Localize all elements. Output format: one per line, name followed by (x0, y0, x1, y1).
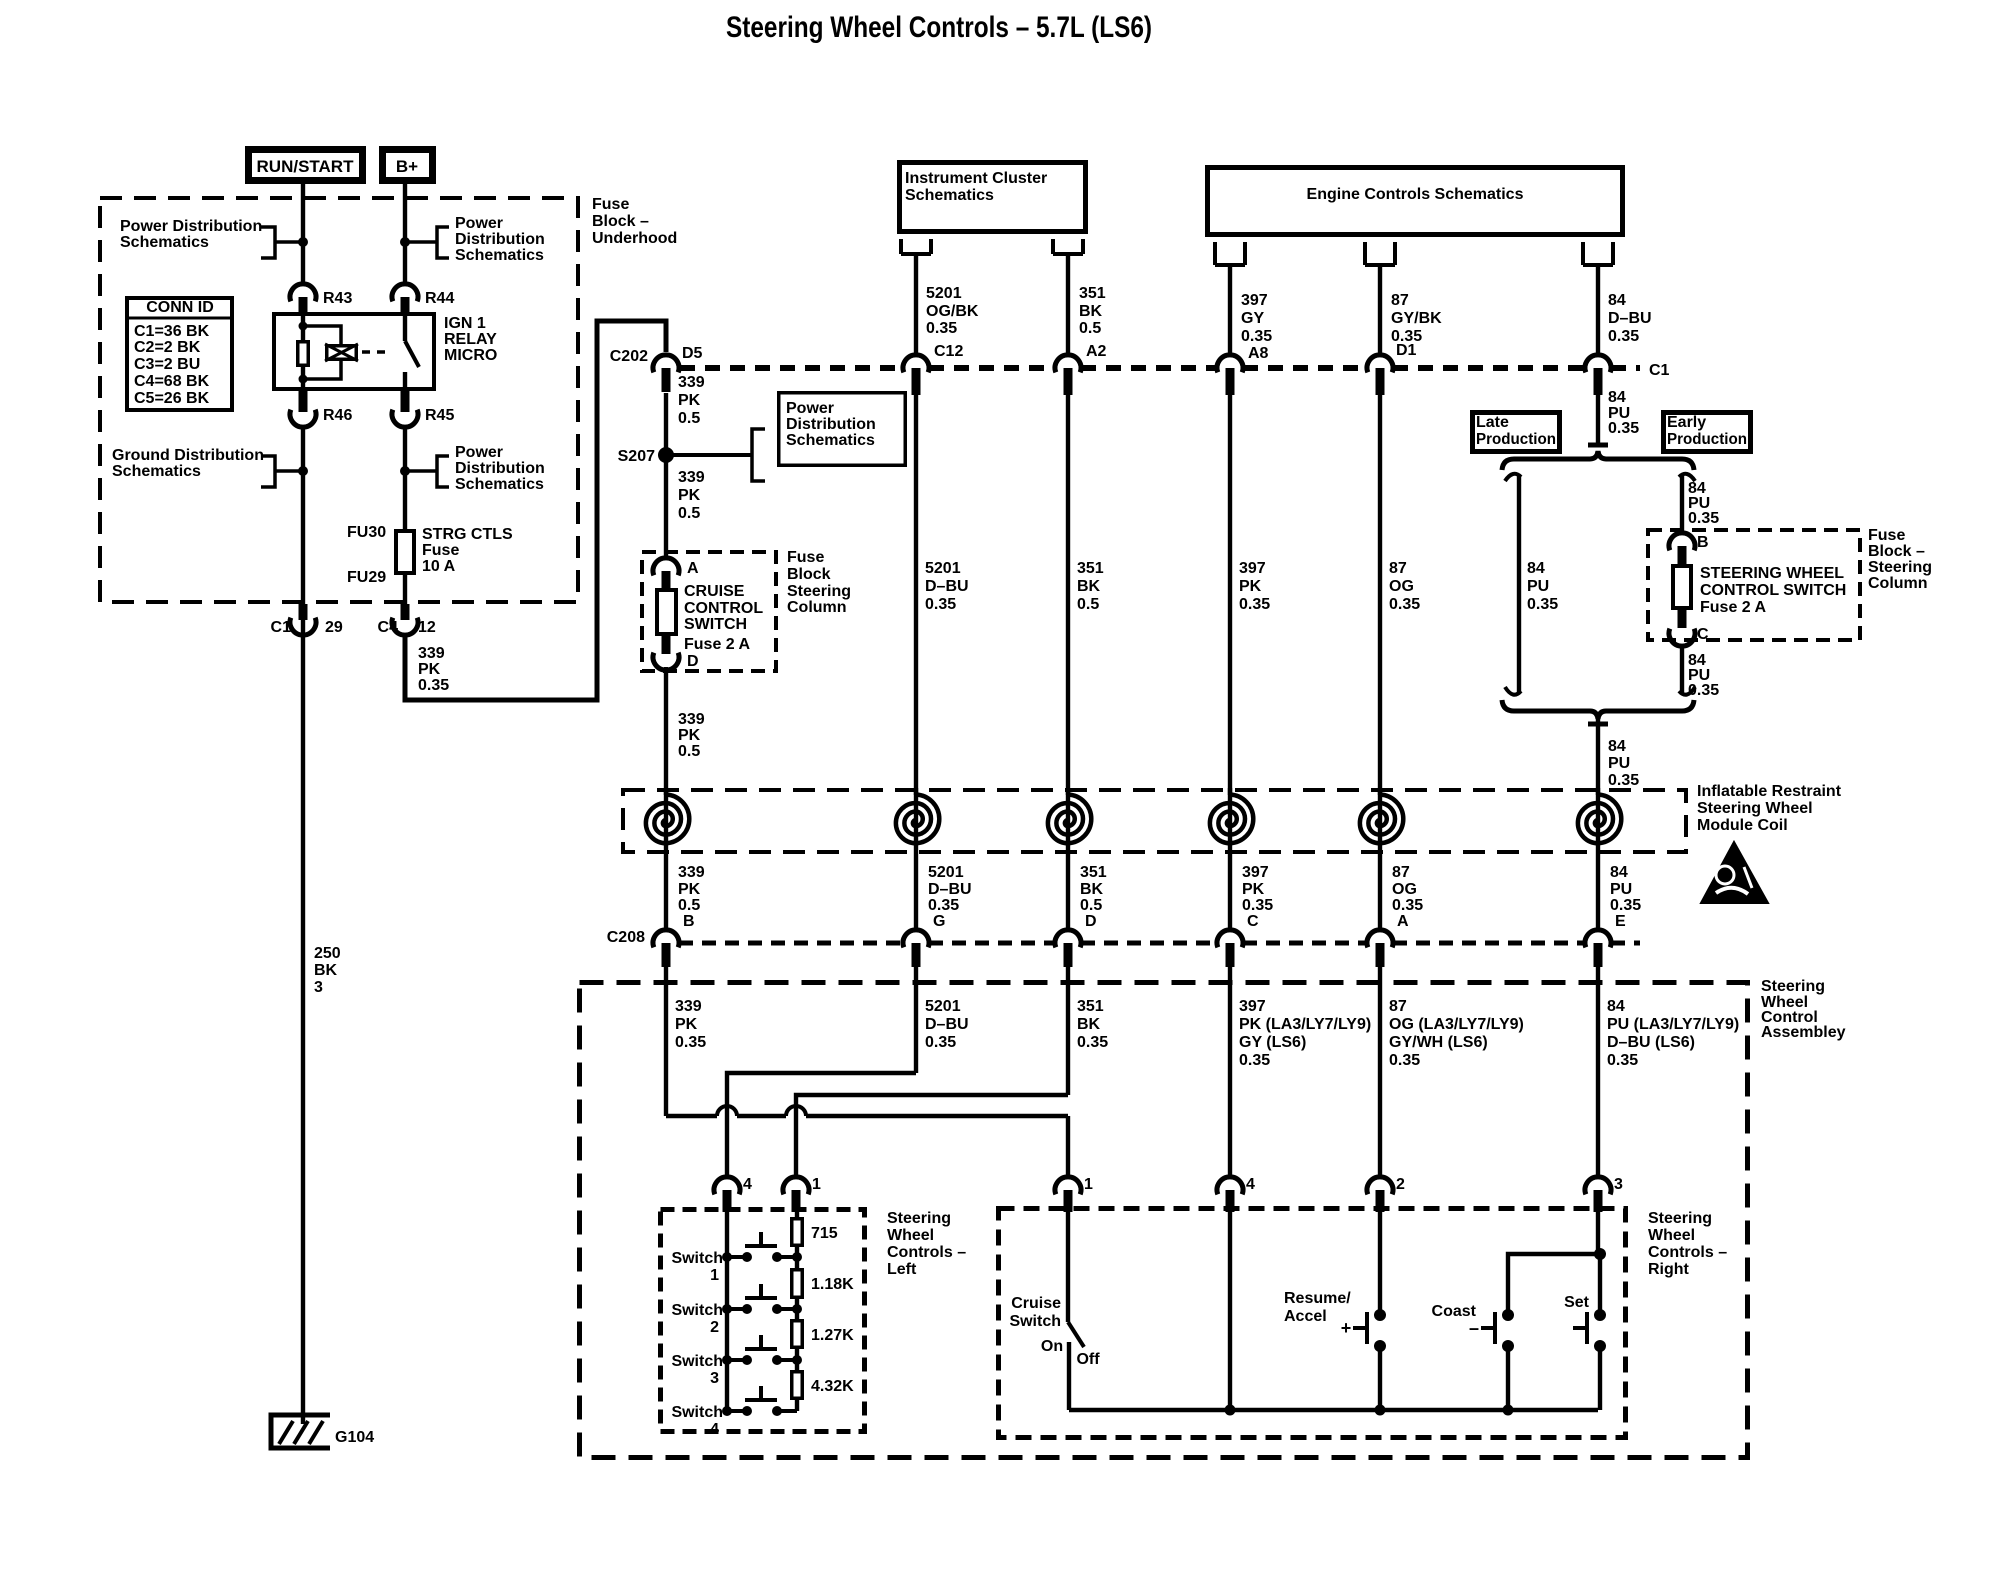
svg-text:GY: GY (1241, 310, 1264, 327)
svg-text:87: 87 (1389, 560, 1407, 577)
svg-text:339: 339 (418, 645, 445, 662)
svg-text:0.35: 0.35 (1239, 1052, 1270, 1069)
svg-text:1: 1 (1084, 1176, 1093, 1193)
svg-text:Block –: Block – (592, 213, 649, 230)
svg-text:RUN/START: RUN/START (257, 157, 355, 176)
svg-text:10 A: 10 A (422, 558, 456, 575)
svg-text:GY/BK: GY/BK (1391, 310, 1442, 327)
svg-text:Production: Production (1667, 431, 1747, 448)
svg-text:D–BU: D–BU (1608, 310, 1652, 327)
svg-text:Cruise: Cruise (1011, 1295, 1061, 1312)
svg-text:BK: BK (1080, 881, 1104, 898)
svg-text:CONN ID: CONN ID (146, 299, 214, 316)
svg-text:PU: PU (1527, 578, 1549, 595)
svg-text:351: 351 (1079, 285, 1106, 302)
svg-text:FU29: FU29 (347, 569, 386, 586)
svg-text:Fuse 2 A: Fuse 2 A (684, 636, 751, 653)
svg-text:0.35: 0.35 (1392, 897, 1423, 914)
svg-text:339: 339 (678, 864, 705, 881)
svg-text:A: A (1397, 913, 1409, 930)
svg-text:C4=68 BK: C4=68 BK (134, 373, 210, 390)
svg-text:–: – (1469, 1318, 1479, 1338)
svg-text:0.35: 0.35 (925, 596, 956, 613)
svg-text:PK: PK (1239, 578, 1262, 595)
svg-text:Assembley: Assembley (1761, 1024, 1846, 1041)
svg-text:Resume/: Resume/ (1284, 1290, 1351, 1307)
svg-text:0.35: 0.35 (1241, 328, 1272, 345)
svg-text:0.35: 0.35 (1527, 596, 1558, 613)
svg-text:Steering: Steering (887, 1210, 951, 1227)
svg-text:Schematics: Schematics (112, 463, 201, 480)
svg-text:12: 12 (418, 619, 436, 636)
svg-text:351: 351 (1077, 560, 1104, 577)
svg-text:Ground Distribution: Ground Distribution (112, 447, 264, 464)
svg-text:Switch: Switch (671, 1302, 723, 1319)
svg-text:Schematics: Schematics (455, 247, 544, 264)
svg-text:SWITCH: SWITCH (684, 616, 747, 633)
svg-text:A2: A2 (1086, 343, 1107, 360)
svg-text:3: 3 (314, 979, 323, 996)
svg-text:4: 4 (743, 1176, 752, 1193)
svg-text:Schematics: Schematics (786, 432, 875, 449)
svg-text:0.35: 0.35 (1389, 1052, 1420, 1069)
svg-text:0.35: 0.35 (1610, 897, 1641, 914)
svg-text:4: 4 (1246, 1176, 1255, 1193)
svg-text:0.5: 0.5 (678, 897, 700, 914)
svg-text:Underhood: Underhood (592, 230, 677, 247)
svg-text:0.35: 0.35 (928, 897, 959, 914)
svg-text:A8: A8 (1248, 345, 1269, 362)
svg-text:On: On (1041, 1338, 1063, 1355)
svg-text:R46: R46 (323, 407, 352, 424)
svg-text:2: 2 (1396, 1176, 1405, 1193)
svg-text:Inflatable Restraint: Inflatable Restraint (1697, 783, 1842, 800)
svg-text:0.35: 0.35 (1239, 596, 1270, 613)
svg-text:Steering: Steering (787, 583, 851, 600)
svg-text:PK: PK (418, 661, 441, 678)
svg-text:D–BU: D–BU (925, 578, 969, 595)
svg-text:C5=26 BK: C5=26 BK (134, 390, 210, 407)
svg-text:R44: R44 (425, 290, 454, 307)
svg-text:D5: D5 (682, 345, 703, 362)
svg-text:Module Coil: Module Coil (1697, 817, 1788, 834)
svg-text:B: B (683, 913, 695, 930)
svg-text:G: G (933, 913, 945, 930)
svg-text:84: 84 (1608, 389, 1626, 406)
svg-text:R45: R45 (425, 407, 454, 424)
svg-text:397: 397 (1241, 292, 1268, 309)
svg-text:87: 87 (1389, 998, 1407, 1015)
svg-text:0.35: 0.35 (1607, 1052, 1638, 1069)
svg-text:339: 339 (675, 998, 702, 1015)
svg-text:B: B (1697, 534, 1709, 551)
svg-text:+: + (1341, 1318, 1352, 1338)
svg-text:Steering: Steering (1761, 978, 1825, 995)
svg-text:Controls –: Controls – (1648, 1244, 1727, 1261)
svg-text:S207: S207 (618, 448, 655, 465)
svg-text:PU: PU (1610, 881, 1632, 898)
svg-text:IGN 1: IGN 1 (444, 315, 486, 332)
svg-text:Distribution: Distribution (455, 231, 545, 248)
svg-text:E: E (1615, 913, 1626, 930)
svg-text:5201: 5201 (926, 285, 962, 302)
svg-text:Instrument Cluster: Instrument Cluster (905, 170, 1047, 187)
svg-text:D: D (1085, 913, 1097, 930)
svg-text:Fuse 2 A: Fuse 2 A (1700, 599, 1767, 616)
svg-text:0.5: 0.5 (1079, 320, 1101, 337)
svg-text:PK: PK (675, 1016, 698, 1033)
svg-text:D–BU: D–BU (928, 881, 972, 898)
svg-text:C1: C1 (1649, 362, 1670, 379)
svg-text:84: 84 (1607, 998, 1625, 1015)
svg-text:PK (LA3/LY7/LY9): PK (LA3/LY7/LY9) (1239, 1016, 1371, 1033)
svg-text:0.5: 0.5 (678, 743, 700, 760)
svg-text:Switch: Switch (1009, 1313, 1061, 1330)
svg-text:PK: PK (1242, 881, 1265, 898)
svg-text:0.35: 0.35 (1608, 420, 1639, 437)
svg-text:OG (LA3/LY7/LY9): OG (LA3/LY7/LY9) (1389, 1016, 1524, 1033)
svg-text:87: 87 (1391, 292, 1409, 309)
svg-text:84: 84 (1608, 292, 1626, 309)
svg-text:0.35: 0.35 (1242, 897, 1273, 914)
svg-text:C: C (1247, 913, 1259, 930)
svg-text:Power: Power (786, 400, 834, 417)
svg-text:Schematics: Schematics (455, 476, 544, 493)
svg-text:Block: Block (787, 566, 831, 583)
svg-text:Distribution: Distribution (786, 416, 876, 433)
svg-text:0.35: 0.35 (1608, 772, 1639, 789)
svg-text:250: 250 (314, 945, 341, 962)
svg-text:C202: C202 (610, 348, 648, 365)
svg-text:D–BU (LS6): D–BU (LS6) (1607, 1034, 1695, 1051)
svg-text:PK: PK (678, 487, 701, 504)
svg-text:397: 397 (1242, 864, 1269, 881)
svg-text:CONTROL: CONTROL (684, 600, 763, 617)
svg-text:1.18K: 1.18K (811, 1276, 854, 1293)
svg-text:Production: Production (1476, 431, 1556, 448)
svg-text:C12: C12 (934, 343, 963, 360)
svg-text:A: A (687, 560, 699, 577)
svg-text:339: 339 (678, 469, 705, 486)
svg-text:GY/WH (LS6): GY/WH (LS6) (1389, 1034, 1488, 1051)
svg-text:0.35: 0.35 (418, 677, 449, 694)
svg-text:MICRO: MICRO (444, 347, 497, 364)
svg-text:OG: OG (1392, 881, 1417, 898)
svg-text:Fuse: Fuse (787, 549, 824, 566)
svg-text:84: 84 (1610, 864, 1628, 881)
svg-text:Column: Column (787, 599, 847, 616)
svg-text:C: C (1697, 626, 1709, 643)
svg-text:5201: 5201 (928, 864, 964, 881)
svg-text:4: 4 (710, 1421, 719, 1438)
svg-text:BK: BK (1077, 1016, 1101, 1033)
svg-text:Right: Right (1648, 1261, 1690, 1278)
svg-text:0.35: 0.35 (926, 320, 957, 337)
svg-text:84: 84 (1608, 738, 1626, 755)
svg-text:Power Distribution: Power Distribution (120, 218, 262, 235)
svg-text:Steering Wheel Controls – 5.7L: Steering Wheel Controls – 5.7L (LS6) (726, 11, 1152, 44)
svg-text:0.5: 0.5 (678, 505, 700, 522)
svg-text:339: 339 (678, 374, 705, 391)
svg-text:C2=2 BK: C2=2 BK (134, 339, 201, 356)
svg-text:Steering: Steering (1648, 1210, 1712, 1227)
svg-text:Steering Wheel: Steering Wheel (1697, 800, 1813, 817)
svg-text:FU30: FU30 (347, 524, 386, 541)
svg-text:CRUISE: CRUISE (684, 583, 745, 600)
svg-text:Switch: Switch (671, 1250, 723, 1267)
svg-text:Engine Controls Schematics: Engine Controls Schematics (1307, 186, 1524, 203)
svg-text:Switch: Switch (671, 1353, 723, 1370)
svg-text:397: 397 (1239, 998, 1266, 1015)
svg-text:OG: OG (1389, 578, 1414, 595)
svg-text:2: 2 (710, 1319, 719, 1336)
svg-text:1: 1 (710, 1267, 719, 1284)
svg-text:C1=36 BK: C1=36 BK (134, 323, 210, 340)
svg-text:BK: BK (1079, 303, 1103, 320)
svg-text:1: 1 (812, 1176, 821, 1193)
svg-text:Accel: Accel (1284, 1308, 1327, 1325)
svg-text:Column: Column (1868, 575, 1928, 592)
svg-text:STRG CTLS: STRG CTLS (422, 526, 513, 543)
svg-text:0.5: 0.5 (1077, 596, 1099, 613)
svg-text:84: 84 (1527, 560, 1545, 577)
svg-text:0.35: 0.35 (925, 1034, 956, 1051)
svg-text:C3=2 BU: C3=2 BU (134, 356, 200, 373)
svg-text:Late: Late (1476, 414, 1509, 431)
svg-text:OG/BK: OG/BK (926, 303, 979, 320)
svg-text:PU (LA3/LY7/LY9): PU (LA3/LY7/LY9) (1607, 1016, 1739, 1033)
svg-text:Schematics: Schematics (120, 234, 209, 251)
svg-text:C1: C1 (271, 619, 292, 636)
svg-text:5201: 5201 (925, 560, 961, 577)
svg-text:Switch: Switch (671, 1404, 723, 1421)
svg-text:GY (LS6): GY (LS6) (1239, 1034, 1306, 1051)
svg-text:C208: C208 (607, 929, 645, 946)
svg-text:BK: BK (314, 962, 338, 979)
svg-text:PK: PK (678, 392, 701, 409)
svg-text:Controls –: Controls – (887, 1244, 966, 1261)
svg-text:Power: Power (455, 215, 503, 232)
svg-text:3: 3 (710, 1370, 719, 1387)
svg-text:3: 3 (1614, 1176, 1623, 1193)
svg-text:0.35: 0.35 (1077, 1034, 1108, 1051)
svg-text:STEERING WHEEL: STEERING WHEEL (1700, 565, 1844, 582)
svg-text:D1: D1 (1396, 342, 1417, 359)
svg-text:715: 715 (811, 1225, 838, 1242)
svg-text:CONTROL SWITCH: CONTROL SWITCH (1700, 582, 1846, 599)
svg-text:PK: PK (678, 727, 701, 744)
svg-text:Set: Set (1564, 1294, 1590, 1311)
svg-text:351: 351 (1077, 998, 1104, 1015)
svg-text:Early: Early (1667, 414, 1706, 431)
svg-text:0.35: 0.35 (1608, 328, 1639, 345)
svg-text:RELAY: RELAY (444, 331, 497, 348)
svg-text:5201: 5201 (925, 998, 961, 1015)
svg-text:0.35: 0.35 (675, 1034, 706, 1051)
svg-text:339: 339 (678, 711, 705, 728)
svg-text:G104: G104 (335, 1429, 374, 1446)
svg-text:351: 351 (1080, 864, 1107, 881)
svg-text:Wheel: Wheel (887, 1227, 934, 1244)
svg-text:PU: PU (1608, 755, 1630, 772)
svg-text:1.27K: 1.27K (811, 1327, 854, 1344)
svg-text:Power: Power (455, 444, 503, 461)
svg-text:29: 29 (325, 619, 343, 636)
svg-text:Schematics: Schematics (905, 187, 994, 204)
svg-text:4.32K: 4.32K (811, 1378, 854, 1395)
svg-text:Left: Left (887, 1261, 917, 1278)
svg-text:0.5: 0.5 (1080, 897, 1102, 914)
svg-text:Fuse: Fuse (422, 542, 459, 559)
svg-text:Steering: Steering (1868, 559, 1932, 576)
svg-text:C4: C4 (378, 619, 399, 636)
svg-text:Distribution: Distribution (455, 460, 545, 477)
svg-text:D: D (687, 653, 699, 670)
svg-text:PK: PK (678, 881, 701, 898)
svg-text:R43: R43 (323, 290, 352, 307)
svg-text:0.35: 0.35 (1688, 510, 1719, 527)
svg-text:Fuse: Fuse (592, 196, 629, 213)
svg-text:0.35: 0.35 (1389, 596, 1420, 613)
svg-text:Fuse: Fuse (1868, 527, 1905, 544)
svg-text:Block –: Block – (1868, 543, 1925, 560)
svg-text:BK: BK (1077, 578, 1101, 595)
svg-text:Off: Off (1076, 1351, 1100, 1368)
svg-text:B+: B+ (396, 157, 418, 176)
svg-text:D–BU: D–BU (925, 1016, 969, 1033)
svg-text:397: 397 (1239, 560, 1266, 577)
svg-text:87: 87 (1392, 864, 1410, 881)
svg-text:Wheel: Wheel (1648, 1227, 1695, 1244)
svg-text:0.5: 0.5 (678, 410, 700, 427)
